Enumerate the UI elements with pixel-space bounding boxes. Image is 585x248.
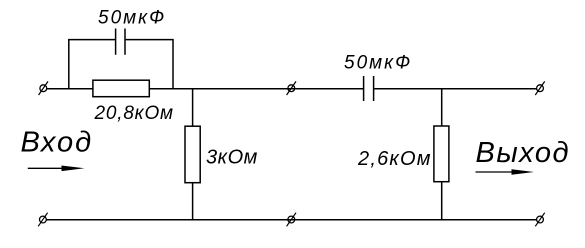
node label Выход [476, 137, 571, 169]
wire riser to R3 top [441, 89, 443, 126]
svg-text:Вход: Вход [21, 127, 94, 159]
resistor R1 body (20,8кОм horizontal) [93, 80, 149, 97]
wire R3 bottom lead [441, 182, 443, 220]
terminal mid top [287, 81, 296, 95]
svg-text:Выход: Выход [476, 137, 571, 169]
node label Вход [21, 127, 94, 159]
svg-text:20,8кОм: 20,8кОм [94, 103, 174, 124]
terminal mid bottom [287, 213, 296, 227]
wire parallel-branch left riser and top lead [69, 40, 115, 89]
wire top bus left segment [47, 88, 93, 90]
terminal output top [535, 81, 544, 95]
resistor R3 body (2,6кОм vertical) [434, 126, 449, 182]
wire riser to R2 top [192, 89, 194, 127]
resistor R2 body (3кОм vertical) [185, 126, 200, 183]
svg-text:2,6кОм: 2,6кОм [357, 148, 432, 170]
capacitor C2 plates (50мкФ series) [364, 76, 374, 101]
wire top bus right segment [374, 88, 536, 90]
terminal output bottom [535, 213, 544, 227]
svg-text:50мкФ: 50мкФ [98, 7, 166, 28]
resistor R2 value label 3кОм [206, 147, 258, 169]
terminal input top [39, 81, 48, 95]
resistor R1 value label 20,8кОм [94, 103, 174, 124]
capacitor C1 value label 50мкФ [98, 7, 166, 28]
wire parallel-branch top lead right and right riser [126, 40, 173, 89]
wire bottom bus [46, 219, 536, 221]
output arrow [476, 169, 535, 175]
capacitor C1 plates (50мкФ top-left) [116, 29, 125, 55]
input arrow [28, 166, 85, 172]
svg-text:3кОм: 3кОм [206, 147, 258, 169]
wire top bus middle segment [149, 88, 363, 90]
resistor R3 value label 2,6кОм [357, 148, 432, 170]
svg-text:50мкФ: 50мкФ [344, 53, 412, 74]
terminal input bottom [38, 213, 47, 227]
wire R2 bottom lead [192, 183, 194, 220]
capacitor C2 value label 50мкФ [344, 53, 412, 74]
